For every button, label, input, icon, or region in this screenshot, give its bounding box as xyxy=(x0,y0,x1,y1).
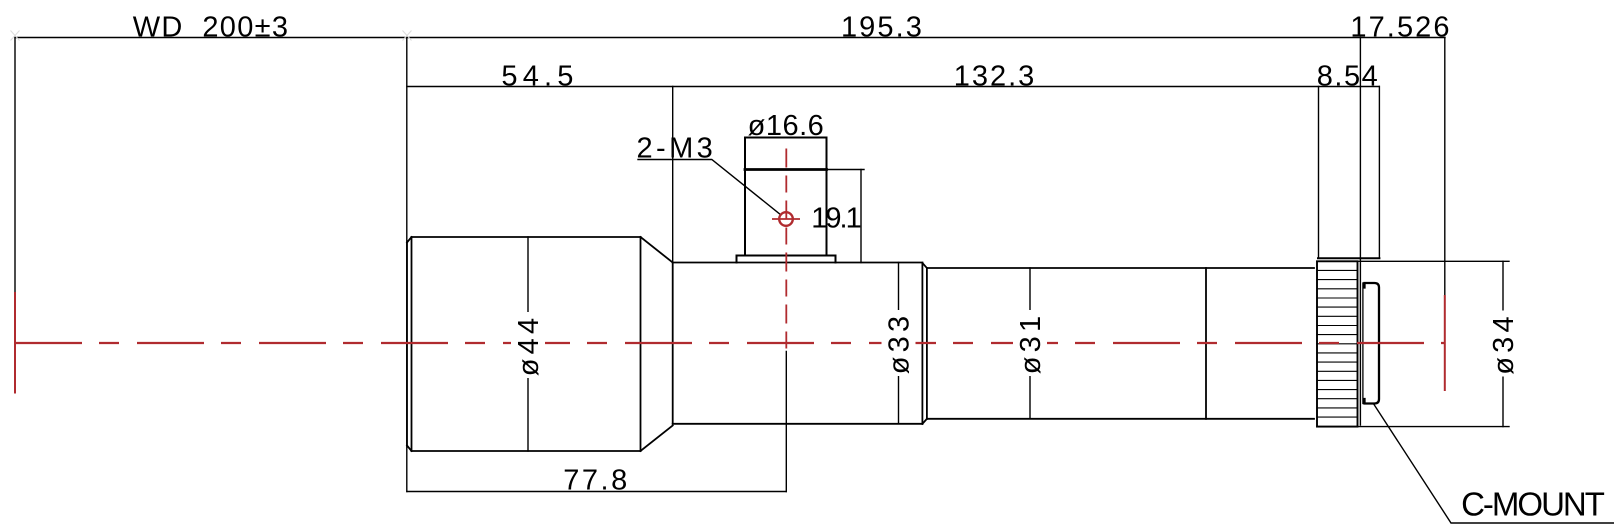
dim line 19.1 xyxy=(827,170,865,263)
knob inner thick line xyxy=(745,168,827,171)
knurled ring outline xyxy=(1317,261,1358,426)
main horizontal centerline xyxy=(15,342,1445,344)
svg-text:195.3: 195.3 xyxy=(841,11,924,43)
faint arrow ghost left xyxy=(11,31,20,41)
svg-text:ø44: ø44 xyxy=(513,314,545,377)
svg-text:C-MOUNT: C-MOUNT xyxy=(1461,485,1605,522)
svg-text:ø16.6: ø16.6 xyxy=(748,110,825,142)
svg-text:17.526: 17.526 xyxy=(1350,11,1451,43)
knob vertical centerline xyxy=(785,149,787,352)
left object-plane crosshair xyxy=(14,292,16,394)
extension vertical x1360.4 (17.526 left) xyxy=(1359,38,1361,426)
svg-text:ø34: ø34 xyxy=(1488,312,1520,375)
svg-text:ø33: ø33 xyxy=(883,312,915,375)
extension vertical x672.7 xyxy=(672,87,674,263)
white halo + rotated text o34 xyxy=(1486,311,1520,377)
step chamfer to o31 xyxy=(922,263,927,424)
white halo + rotated text o31 xyxy=(1013,310,1047,376)
extension vertical x1444.8 (17.526 right) xyxy=(1444,38,1446,296)
extension vertical x786.3 (77.8 right, below centerline) xyxy=(785,352,787,492)
svg-text:8.54: 8.54 xyxy=(1317,61,1379,93)
extension vertical left WD xyxy=(14,38,16,293)
svg-text:2-M3: 2-M3 xyxy=(637,133,717,165)
C-mount stub thin left edge xyxy=(1362,283,1364,404)
dim line 54.5/132.3/8.54 xyxy=(407,86,1379,88)
hole circle 2-M3 xyxy=(779,212,793,226)
red centerlines group xyxy=(15,149,1445,394)
dim line WD/195.3/17.526 top xyxy=(15,37,1445,39)
top lip line above ring xyxy=(1318,257,1379,259)
leader 2-M3 xyxy=(638,160,781,215)
big cylinder o44 outline xyxy=(407,237,641,451)
o34 extension lines xyxy=(1317,261,1509,426)
knurl ribs xyxy=(1317,270,1358,417)
knob flange xyxy=(737,256,836,263)
svg-text:54.5: 54.5 xyxy=(501,61,578,93)
o31 section outline xyxy=(927,268,1314,419)
leader C-MOUNT xyxy=(1374,405,1614,524)
o31 dim vertical xyxy=(1029,268,1031,419)
svg-text:ø31: ø31 xyxy=(1015,312,1047,375)
mid body o33 outline xyxy=(673,263,923,424)
C-mount stub thick outline xyxy=(1365,283,1380,404)
hole cross arm xyxy=(772,218,800,220)
extension vertical x1379.4 (8.54 right) xyxy=(1378,87,1380,259)
o34 dim vertical xyxy=(1502,261,1504,426)
svg-text:19.1: 19.1 xyxy=(811,202,860,234)
white halo + rotated text o33 xyxy=(882,310,916,376)
faint arrow ghost x407 xyxy=(403,31,412,41)
svg-text:WD 200±3: WD 200±3 xyxy=(133,11,290,43)
dim line 77.8 xyxy=(407,491,786,493)
joint line x1206 xyxy=(1205,268,1207,419)
svg-text:77.8: 77.8 xyxy=(563,465,629,497)
svg-text:132.3: 132.3 xyxy=(954,61,1037,93)
white halo + rotated text o44 xyxy=(511,312,545,378)
o44 dim vertical xyxy=(527,237,529,451)
taper cone xyxy=(641,237,673,451)
o33 dim vertical xyxy=(898,263,900,424)
extension vertical x1318.5 xyxy=(1318,87,1320,259)
knob o16.6 outline xyxy=(745,138,827,256)
right image-plane crosshair xyxy=(1444,295,1446,391)
extension vertical x407 full xyxy=(406,38,408,492)
